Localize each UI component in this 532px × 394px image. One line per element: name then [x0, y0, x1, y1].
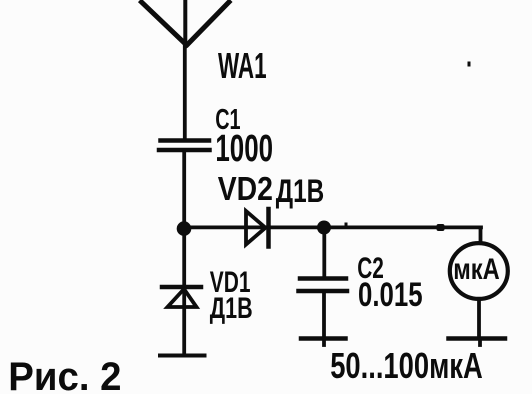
svg-text:1000: 1000 [215, 127, 273, 169]
svg-text:Д1В: Д1В [210, 290, 253, 324]
svg-text:Рис. 2: Рис. 2 [8, 355, 121, 394]
svg-text:Д1В: Д1В [276, 174, 324, 210]
svg-text:VD2: VD2 [218, 170, 273, 208]
svg-text:мкА: мкА [453, 252, 499, 285]
svg-text:50...100мкА: 50...100мкА [330, 345, 483, 386]
svg-text:WA1: WA1 [218, 47, 267, 87]
svg-text:0.015: 0.015 [358, 277, 423, 314]
